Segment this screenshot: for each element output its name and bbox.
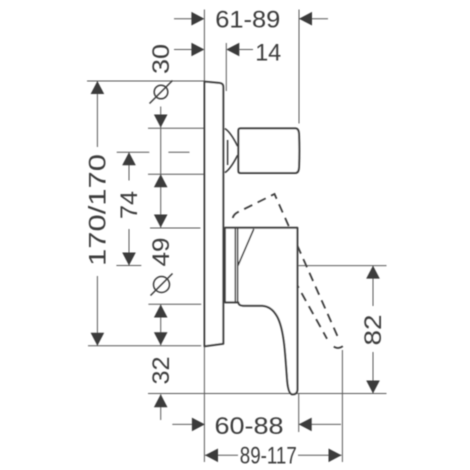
svg-text:60-88: 60-88	[215, 413, 284, 440]
svg-text:89-117: 89-117	[240, 443, 297, 470]
svg-text:49: 49	[148, 238, 175, 267]
svg-text:170/170: 170/170	[85, 154, 112, 266]
svg-text:82: 82	[360, 315, 387, 346]
svg-text:74: 74	[116, 191, 143, 219]
svg-text:61-89: 61-89	[215, 7, 280, 34]
svg-text:30: 30	[148, 44, 175, 74]
svg-text:32: 32	[148, 357, 175, 385]
svg-text:14: 14	[255, 39, 281, 66]
